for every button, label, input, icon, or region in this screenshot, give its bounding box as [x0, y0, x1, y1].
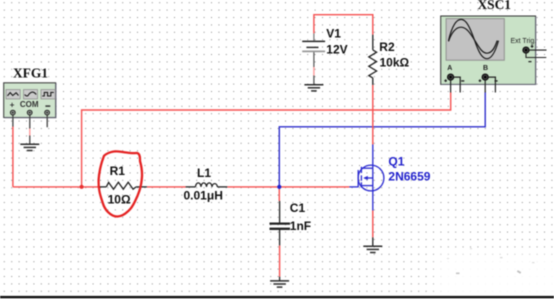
svg-text:Ext Trig.: Ext Trig. — [511, 38, 537, 45]
svg-text:10Ω: 10Ω — [108, 192, 131, 206]
svg-text:+: + — [10, 101, 15, 110]
svg-text:XSC1: XSC1 — [478, 0, 511, 12]
svg-text:12V: 12V — [326, 43, 347, 57]
svg-text:B: B — [483, 65, 488, 72]
svg-text:1nF: 1nF — [290, 219, 311, 233]
svg-text:R1: R1 — [110, 164, 126, 178]
svg-text:XFG1: XFG1 — [13, 66, 48, 81]
svg-text:COM: COM — [20, 100, 39, 109]
svg-text:10kΩ: 10kΩ — [380, 55, 410, 69]
svg-text:0.01μH: 0.01μH — [184, 189, 223, 203]
svg-text:Q1: Q1 — [388, 155, 404, 169]
svg-text:L1: L1 — [197, 166, 211, 180]
svg-text:C1: C1 — [290, 201, 306, 215]
svg-text:R2: R2 — [379, 40, 395, 54]
svg-text:A: A — [447, 65, 452, 72]
svg-text:2N6659: 2N6659 — [388, 170, 430, 184]
svg-text:V1: V1 — [326, 27, 341, 41]
